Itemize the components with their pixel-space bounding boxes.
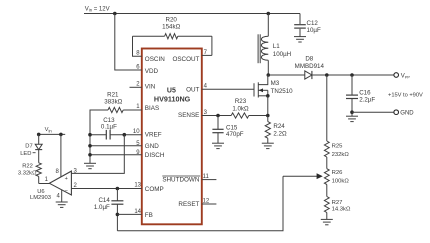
svg-text:MMBD914: MMBD914 [295,63,325,70]
svg-text:R22: R22 [22,163,33,169]
svg-text:2.2µF: 2.2µF [359,97,375,104]
svg-text:R24: R24 [273,123,285,130]
svg-text:VREF: VREF [145,132,162,139]
svg-text:10: 10 [133,129,140,135]
svg-text:232kΩ: 232kΩ [332,152,350,158]
svg-text:M3: M3 [271,80,280,87]
svg-text:383kΩ: 383kΩ [104,98,122,105]
svg-text:BIAS: BIAS [145,105,159,112]
svg-text:VDD: VDD [145,68,159,75]
svg-text:OSCOUT: OSCOUT [172,56,199,63]
svg-text:Vin = 12V: Vin = 12V [85,6,110,12]
svg-text:FB: FB [145,212,153,219]
svg-text:DISCH: DISCH [145,152,165,159]
svg-text:R23: R23 [235,98,247,105]
svg-text:L1: L1 [273,43,280,50]
svg-text:11: 11 [203,174,210,180]
svg-text:+15V to +90V: +15V to +90V [388,93,423,99]
svg-text:2.2Ω: 2.2Ω [273,131,287,138]
svg-text:100µH: 100µH [273,51,291,58]
svg-text:RESET: RESET [178,201,199,208]
svg-text:U5: U5 [167,87,176,94]
svg-text:COMP: COMP [145,186,164,193]
svg-text:D7: D7 [25,144,32,150]
svg-text:+: + [65,176,68,182]
svg-text:470pF: 470pF [226,131,244,138]
svg-text:SENSE: SENSE [178,112,199,119]
svg-text:3.32kΩ: 3.32kΩ [18,171,37,177]
svg-text:R27: R27 [332,200,343,206]
svg-text:0.1µF: 0.1µF [101,123,117,130]
svg-text:10µF: 10µF [307,27,321,34]
svg-text:154kΩ: 154kΩ [162,24,180,31]
svg-text:LM2903: LM2903 [30,195,51,201]
svg-text:100kΩ: 100kΩ [332,179,350,185]
svg-text:VIN: VIN [145,83,156,90]
svg-text:14: 14 [134,209,141,215]
svg-text:LED: LED [20,151,31,157]
svg-text:OUT: OUT [186,87,199,94]
svg-text:GND: GND [145,143,159,150]
svg-text:14.3kΩ: 14.3kΩ [332,207,351,213]
svg-text:Vin: Vin [45,127,53,133]
svg-text:HV9110NG: HV9110NG [154,95,191,104]
svg-text:D8: D8 [305,55,313,62]
svg-text:1.0µF: 1.0µF [94,204,110,211]
svg-text:TN2510: TN2510 [271,88,294,95]
svg-text:SHUTDOWN: SHUTDOWN [162,176,200,183]
svg-text:1.0kΩ: 1.0kΩ [232,105,249,112]
svg-text:C16: C16 [359,90,371,97]
svg-text:R25: R25 [332,143,344,149]
svg-text:R26: R26 [332,170,344,176]
svg-text:13: 13 [134,183,141,189]
svg-text:12: 12 [203,198,210,204]
svg-text:OSCIN: OSCIN [145,56,165,63]
svg-text:C12: C12 [307,20,319,27]
svg-text:GND: GND [400,111,414,117]
svg-text:R20: R20 [166,16,178,23]
